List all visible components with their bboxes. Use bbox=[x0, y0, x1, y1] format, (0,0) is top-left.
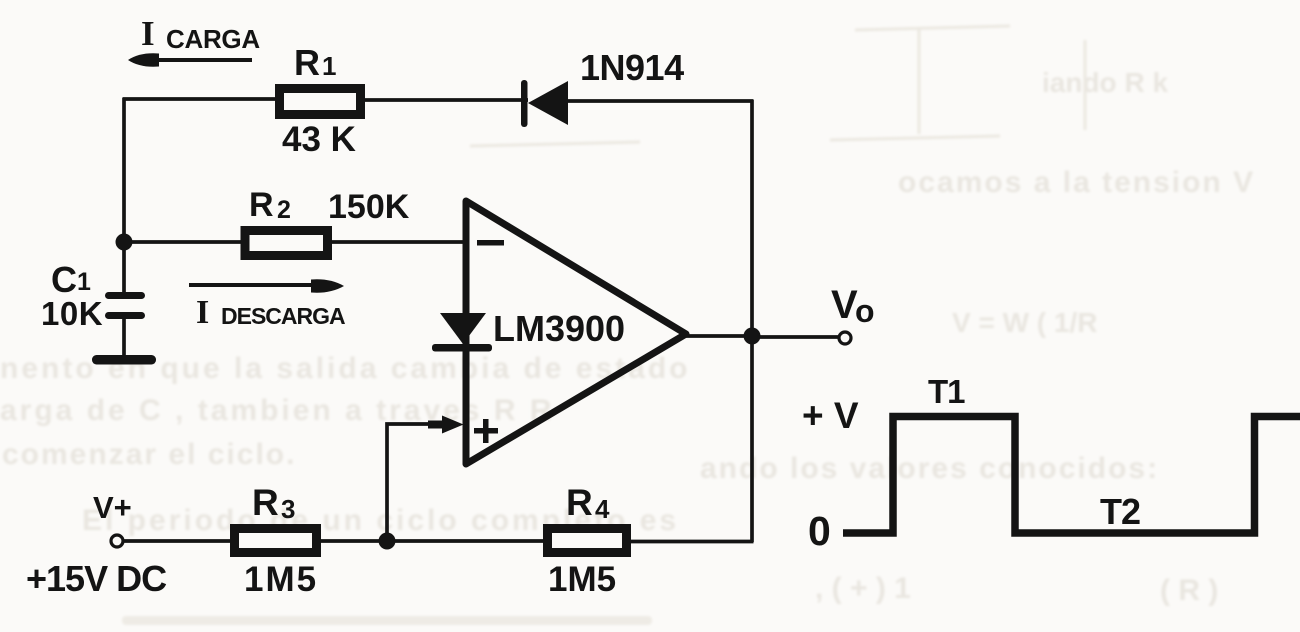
svg-text:1: 1 bbox=[322, 51, 336, 81]
svg-text:2: 2 bbox=[277, 196, 291, 224]
svg-text:I: I bbox=[196, 294, 209, 331]
svg-text:150K: 150K bbox=[328, 188, 410, 226]
svg-text:V = W ( 1/R: V = W ( 1/R bbox=[952, 307, 1097, 338]
terminal V+ bbox=[111, 535, 123, 547]
svg-text:arga de C , tambien a traves: arga de C , tambien a traves R R bbox=[0, 394, 555, 427]
svg-text:iando R k: iando R k bbox=[1042, 67, 1168, 98]
wire C1 node down to capacitor bbox=[122, 242, 126, 293]
svg-text:C: C bbox=[51, 259, 77, 300]
current-mirror diode inside op-amp bbox=[432, 313, 492, 352]
node plus-input junction bbox=[379, 533, 396, 550]
svg-text:3: 3 bbox=[281, 494, 295, 524]
svg-text:1: 1 bbox=[77, 268, 91, 296]
wire R2 to inverting input bbox=[330, 240, 465, 244]
svg-text:R: R bbox=[252, 482, 279, 523]
diode D1 1N914 bbox=[521, 80, 568, 127]
wire R1 to diode bbox=[363, 98, 528, 102]
svg-text:V: V bbox=[831, 283, 858, 327]
wire diode to top-right corner bbox=[566, 99, 754, 103]
node C1 junction bbox=[116, 234, 133, 251]
svg-text:ocamos a la tension V: ocamos a la tension V bbox=[898, 166, 1255, 199]
resistor R3 bbox=[235, 529, 317, 553]
svg-text:T2: T2 bbox=[1100, 491, 1140, 532]
svg-text:LM3900: LM3900 bbox=[493, 308, 625, 349]
wire capacitor to ground bbox=[122, 318, 126, 357]
svg-text:R: R bbox=[294, 42, 320, 83]
resistor R1 bbox=[280, 89, 361, 115]
wire junction up to plus input bbox=[387, 424, 436, 541]
wire op-amp output to node bbox=[684, 334, 752, 338]
svg-text:I: I bbox=[141, 14, 155, 53]
svg-text:4: 4 bbox=[595, 494, 610, 524]
ground bbox=[92, 355, 156, 365]
wire top-left vertical bbox=[122, 98, 126, 242]
arrow I DESCARGA bbox=[189, 279, 344, 292]
node output junction bbox=[744, 328, 761, 345]
svg-text:ando los valores conocidos:: ando los valores conocidos: bbox=[700, 452, 1159, 485]
waveform Vo square wave bbox=[843, 417, 1300, 534]
wire R3 to junction bbox=[320, 539, 388, 543]
wire C1 node to R2 bbox=[124, 240, 245, 244]
plus input sign bbox=[474, 419, 498, 443]
svg-text:1N914: 1N914 bbox=[580, 47, 684, 88]
svg-text:+ V: + V bbox=[802, 395, 859, 436]
svg-text:comenzar el ciclo.: comenzar el ciclo. bbox=[2, 438, 296, 471]
svg-text:DESCARGA: DESCARGA bbox=[221, 303, 345, 329]
svg-text:0: 0 bbox=[808, 508, 831, 554]
resistor R2 bbox=[245, 231, 328, 256]
terminal Vo bbox=[839, 332, 851, 344]
arrow into plus input bbox=[428, 416, 464, 434]
svg-text:( R ): ( R ) bbox=[1160, 574, 1218, 607]
svg-text:1M5: 1M5 bbox=[244, 560, 318, 599]
svg-text:V+: V+ bbox=[93, 490, 132, 525]
wire node to Vo terminal bbox=[752, 335, 839, 339]
svg-text:1M5: 1M5 bbox=[548, 560, 616, 599]
arrow I CARGA bbox=[128, 53, 252, 66]
wire right vertical bbox=[750, 100, 754, 542]
svg-text:, ( + ) 1: , ( + ) 1 bbox=[815, 572, 911, 605]
wire junction to R4 bbox=[387, 539, 544, 543]
capacitor C1 bbox=[105, 292, 145, 319]
resistor R4 bbox=[548, 529, 627, 553]
wire R4 to right vertical bbox=[630, 540, 754, 544]
wire top horizontal to R1 bbox=[123, 97, 278, 101]
wire V+ terminal to R3 bbox=[123, 539, 231, 543]
svg-text:+15V DC: +15V DC bbox=[26, 558, 167, 599]
svg-text:R: R bbox=[249, 186, 274, 224]
op-amp U1 LM3900 bbox=[466, 201, 686, 464]
svg-text:10K: 10K bbox=[41, 295, 103, 332]
svg-text:CARGA: CARGA bbox=[166, 24, 260, 54]
minus input sign bbox=[477, 240, 504, 246]
svg-text:43 K: 43 K bbox=[282, 120, 356, 159]
svg-text:R: R bbox=[566, 482, 593, 523]
svg-text:o: o bbox=[855, 293, 875, 329]
svg-text:T1: T1 bbox=[928, 373, 965, 410]
